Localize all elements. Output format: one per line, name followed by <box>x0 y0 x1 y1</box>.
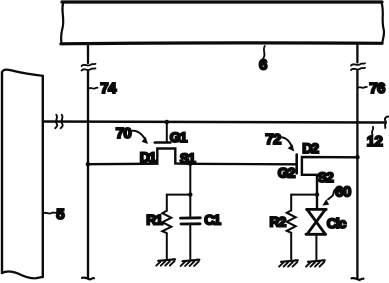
svg-text:G1: G1 <box>170 129 188 145</box>
svg-text:12: 12 <box>367 133 383 150</box>
wire: data line 76 main vertical <box>356 71 358 279</box>
wire: S1 node to G2 gate lead <box>190 163 295 166</box>
bus 6 top line <box>62 0 382 3</box>
break squiggle at right end of line 12 <box>385 117 388 128</box>
transistor 70 gate bar <box>155 141 171 144</box>
transistor 70 gate lead <box>166 122 168 142</box>
svg-text:S2: S2 <box>318 169 334 185</box>
capacitor C1 top plate <box>181 216 201 219</box>
wire: branch from Clc line to R2 <box>291 194 317 196</box>
svg-text:60: 60 <box>335 184 351 201</box>
liquid crystal cell Clc diagonal 2 <box>307 210 325 234</box>
wire: Clc bottom lead <box>315 234 317 259</box>
node: D1 junction dot on line 74 <box>86 162 91 167</box>
ground below Clc <box>306 260 325 266</box>
bar 5 right edge <box>42 76 44 277</box>
svg-text:C1: C1 <box>204 212 221 228</box>
wire: data line 74 upper segment <box>87 45 89 63</box>
arrow from label 70 to transistor <box>132 131 145 139</box>
liquid crystal cell Clc bottom bar <box>306 233 326 236</box>
break symbol on line 74 <box>82 64 96 66</box>
node: junction dot at branch on Clc line <box>315 192 319 196</box>
bar 5 top wavy edge <box>2 70 43 76</box>
svg-text:R2: R2 <box>270 214 287 230</box>
node: gate tap junction dot of T1 <box>165 120 170 125</box>
ground below C1 <box>181 260 200 266</box>
arrow from label 72 to transistor <box>282 137 292 146</box>
svg-text:5: 5 <box>56 206 64 223</box>
liquid crystal cell Clc diagonal 1 <box>308 210 325 234</box>
bar 5 bottom wavy edge <box>2 272 43 279</box>
terminal at bottom of line 76 <box>352 278 364 280</box>
svg-text:D1: D1 <box>140 149 157 165</box>
wire: branch from C1 line to R1 <box>167 194 191 196</box>
svg-text:D2: D2 <box>302 140 319 156</box>
wire: R1 top lead <box>166 195 168 211</box>
wire: R2 bottom lead <box>290 233 292 259</box>
svg-text:72: 72 <box>265 131 281 148</box>
resistor R1 <box>162 211 171 233</box>
tilde leader for label 5 <box>43 212 56 215</box>
break symbol on gate line 12 <box>55 115 57 128</box>
wire: R1 bottom lead <box>166 233 168 259</box>
svg-text:76: 76 <box>369 80 385 97</box>
transistor 72 channel <box>302 157 358 209</box>
wire: C1 bottom lead <box>189 224 191 260</box>
ground below R1 <box>156 259 175 265</box>
terminal at bottom of line 74 <box>82 278 94 280</box>
bus 6 right wavy edge <box>382 3 385 44</box>
liquid crystal cell Clc top bar <box>307 208 327 211</box>
arrow from label 60 to Clc <box>328 189 336 199</box>
tilde leader for label 76 <box>358 87 367 88</box>
break symbol on line 76 <box>351 63 365 65</box>
svg-text:R1: R1 <box>146 212 163 228</box>
resistor R2 <box>287 210 296 232</box>
node: S1 junction dot <box>188 162 193 167</box>
wire: S1 drop to C1 <box>189 164 191 218</box>
capacitor C1 bottom plate <box>181 222 200 225</box>
tilde leader for label 74 <box>89 88 98 89</box>
leader for label 6 <box>263 46 265 59</box>
node: junction dot at branch on C1 line <box>188 192 192 196</box>
wire: R2 top lead <box>290 195 292 211</box>
bus 6 left wavy edge <box>61 2 63 44</box>
wire: data line 76 upper segment <box>356 45 358 63</box>
wire: data line 74 main vertical <box>87 71 89 278</box>
svg-text:G2: G2 <box>278 164 296 180</box>
svg-text:Clc: Clc <box>327 215 347 231</box>
node: D2 junction dot on line 76 <box>355 155 360 160</box>
svg-text:74: 74 <box>100 80 117 97</box>
bar 5 left edge <box>1 72 3 273</box>
leader for label 12 <box>372 127 373 135</box>
transistor 70 channel (D1 side and hat) <box>88 149 190 165</box>
ground below R2 <box>279 260 298 266</box>
wire: gate line 12 <box>43 122 384 123</box>
transistor 72 gate bar <box>295 155 298 174</box>
svg-text:70: 70 <box>116 125 132 142</box>
svg-text:6: 6 <box>259 56 267 73</box>
bus 6 bottom line <box>61 41 382 45</box>
